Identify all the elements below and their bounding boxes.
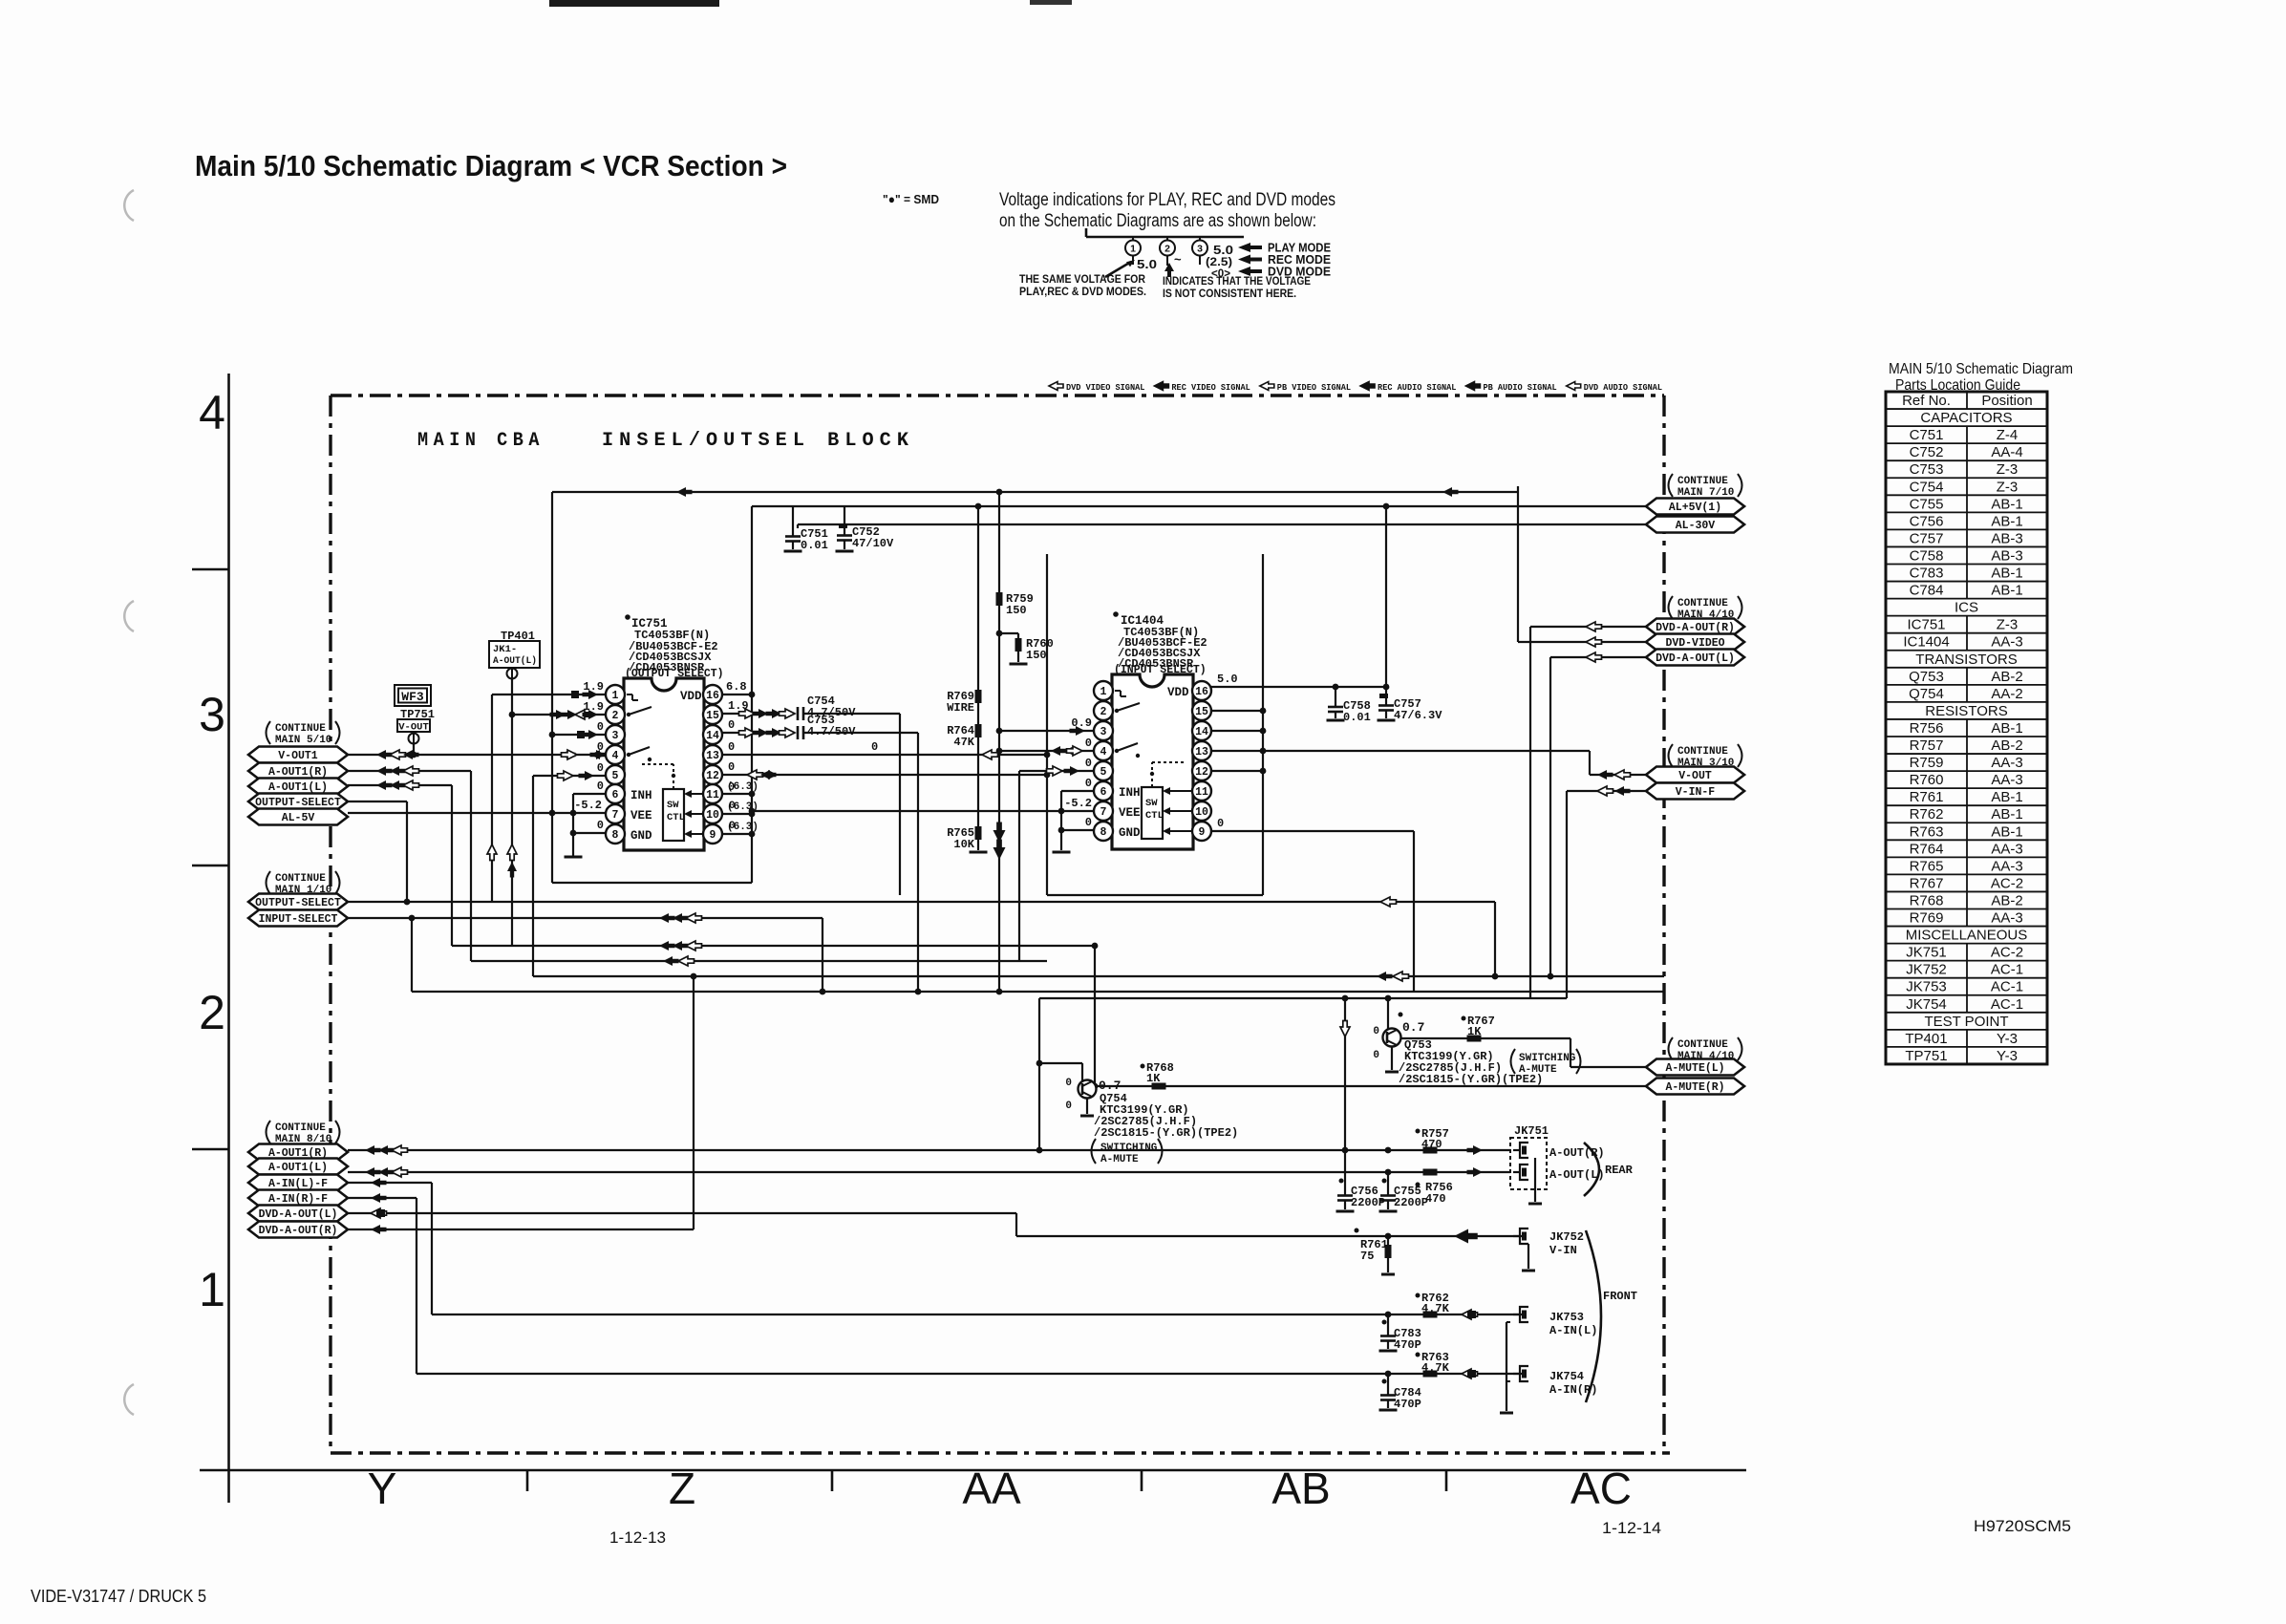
svg-text:A-OUT(L): A-OUT(L) [493, 655, 537, 667]
svg-text:3: 3 [1197, 244, 1203, 255]
svg-text:DVD-VIDEO: DVD-VIDEO [1665, 637, 1724, 650]
svg-text:TRANSISTORS: TRANSISTORS [1915, 652, 2017, 668]
svg-text:1: 1 [1100, 686, 1107, 698]
svg-text:2: 2 [199, 986, 225, 1039]
svg-text:0: 0 [871, 740, 878, 754]
svg-text:0: 0 [1085, 816, 1092, 829]
svg-text:R760: R760 [1910, 772, 1944, 788]
svg-text:0.7: 0.7 [1402, 1020, 1424, 1035]
svg-text:AC-1: AC-1 [1991, 962, 2023, 978]
svg-text:AB-1: AB-1 [1991, 566, 2022, 582]
svg-text:2200P: 2200P [1394, 1196, 1428, 1209]
svg-text:1-12-14: 1-12-14 [1602, 1519, 1661, 1537]
svg-text:470P: 470P [1394, 1338, 1421, 1352]
svg-text:7: 7 [612, 809, 619, 822]
svg-text:C754: C754 [1910, 479, 1944, 495]
svg-text:CAPACITORS: CAPACITORS [1920, 410, 2012, 426]
svg-text:R756: R756 [1910, 720, 1944, 737]
svg-text:MAIN CBA: MAIN CBA [417, 430, 545, 452]
svg-text:CONTINUE: CONTINUE [275, 1122, 326, 1134]
svg-text:15: 15 [706, 710, 719, 722]
svg-text:PB AUDIO SIGNAL: PB AUDIO SIGNAL [1483, 382, 1557, 393]
svg-text:10: 10 [1195, 806, 1208, 819]
svg-text:INDICATES THAT THE VOLTAGE: INDICATES THAT THE VOLTAGE [1163, 274, 1311, 288]
svg-text:(OUTPUT SELECT): (OUTPUT SELECT) [625, 668, 724, 680]
svg-text:GND: GND [1119, 826, 1141, 840]
svg-text:4: 4 [199, 386, 225, 439]
svg-text:JK753: JK753 [1906, 979, 1947, 995]
svg-text:TEST POINT: TEST POINT [1924, 1014, 2008, 1030]
svg-text:0: 0 [728, 718, 735, 732]
svg-text:WIRE: WIRE [947, 701, 974, 715]
svg-text:150: 150 [1026, 649, 1047, 662]
svg-text:11: 11 [1195, 786, 1208, 799]
svg-text:15: 15 [1195, 706, 1208, 718]
svg-text:10K: 10K [953, 838, 974, 851]
svg-text:AA-3: AA-3 [1991, 755, 2022, 771]
svg-text:DVD-A-OUT(L): DVD-A-OUT(L) [259, 1208, 338, 1221]
svg-text:Q754: Q754 [1909, 686, 1944, 702]
svg-text:Y-3: Y-3 [1997, 1048, 2018, 1064]
svg-text:A-IN(L): A-IN(L) [1549, 1324, 1597, 1337]
svg-text:H9720SCM5: H9720SCM5 [1974, 1517, 2071, 1535]
svg-text:VDD: VDD [1167, 686, 1189, 699]
svg-text:8: 8 [1100, 826, 1107, 839]
svg-text:GND: GND [630, 829, 652, 843]
svg-text:C755: C755 [1910, 496, 1944, 512]
svg-text:AB-2: AB-2 [1991, 892, 2022, 908]
svg-text:470: 470 [1421, 1138, 1442, 1151]
svg-text:A-IN(L)-F: A-IN(L)-F [268, 1178, 328, 1190]
svg-text:REAR: REAR [1605, 1164, 1634, 1177]
svg-text:A-OUT1(R): A-OUT1(R) [268, 766, 328, 779]
svg-text:0: 0 [1085, 757, 1092, 770]
svg-text:AC-2: AC-2 [1991, 945, 2023, 961]
svg-text:CONTINUE: CONTINUE [1677, 476, 1728, 487]
svg-text:5.0: 5.0 [1217, 673, 1238, 686]
svg-text:VIDE-V31747 / DRUCK 5: VIDE-V31747 / DRUCK 5 [31, 1587, 206, 1606]
svg-text:"●" = SMD: "●" = SMD [883, 192, 939, 206]
svg-text:VEE: VEE [1119, 806, 1141, 820]
svg-text:0: 0 [597, 780, 604, 793]
svg-text:14: 14 [1195, 726, 1208, 738]
svg-text:A-MUTE: A-MUTE [1519, 1064, 1557, 1076]
svg-text:INPUT-SELECT: INPUT-SELECT [259, 913, 338, 926]
svg-text:13: 13 [706, 750, 719, 762]
svg-text:CONTINUE: CONTINUE [275, 873, 326, 885]
svg-text:AA-3: AA-3 [1991, 772, 2022, 788]
svg-text:REC VIDEO SIGNAL: REC VIDEO SIGNAL [1171, 382, 1250, 393]
svg-text:4.7K: 4.7K [1421, 1302, 1450, 1315]
svg-text:AA-3: AA-3 [1991, 634, 2022, 651]
svg-text:470P: 470P [1394, 1398, 1421, 1411]
svg-text:0: 0 [728, 760, 735, 774]
svg-text:(INPUT SELECT): (INPUT SELECT) [1114, 664, 1207, 676]
svg-text:CTL: CTL [1145, 810, 1164, 822]
svg-text:Z-3: Z-3 [1997, 479, 2019, 495]
svg-text:(6.3): (6.3) [727, 822, 758, 833]
svg-text:JK754: JK754 [1549, 1370, 1584, 1383]
svg-text:AL-30V: AL-30V [1676, 520, 1716, 532]
svg-text:C758: C758 [1910, 547, 1944, 564]
svg-text:AA: AA [962, 1464, 1021, 1513]
svg-text:AB-1: AB-1 [1991, 513, 2022, 529]
svg-text:2: 2 [1164, 244, 1170, 255]
svg-text:/2SC1815-(Y.GR)(TPE2): /2SC1815-(Y.GR)(TPE2) [1094, 1126, 1238, 1140]
svg-text:5.0: 5.0 [1213, 244, 1233, 257]
svg-text:Main 5/10 Schematic Diagram <: Main 5/10 Schematic Diagram < VCR Sectio… [195, 149, 787, 182]
svg-text:5: 5 [1100, 766, 1107, 779]
svg-text:1: 1 [1130, 244, 1136, 255]
svg-text:47/10V: 47/10V [852, 537, 894, 550]
svg-text:1.9: 1.9 [583, 680, 604, 694]
svg-text:C783: C783 [1910, 566, 1944, 582]
svg-text:0: 0 [1373, 1050, 1379, 1061]
svg-text:A-OUT1(L): A-OUT1(L) [268, 781, 328, 794]
svg-text:CTL: CTL [667, 812, 685, 823]
svg-text:0: 0 [597, 761, 604, 775]
svg-text:-5.2: -5.2 [574, 799, 602, 812]
svg-text:3: 3 [1100, 726, 1107, 738]
svg-text:DVD-A-OUT(R): DVD-A-OUT(R) [1656, 622, 1735, 634]
svg-text:C784: C784 [1910, 583, 1944, 599]
svg-text:6: 6 [1100, 786, 1107, 799]
svg-text:1K: 1K [1467, 1025, 1482, 1038]
svg-text:V-IN: V-IN [1549, 1244, 1577, 1257]
svg-text:R757: R757 [1910, 737, 1944, 754]
svg-text:MISCELLANEOUS: MISCELLANEOUS [1906, 928, 2028, 944]
svg-text:DVD VIDEO SIGNAL: DVD VIDEO SIGNAL [1066, 382, 1145, 393]
svg-text:1: 1 [612, 690, 619, 702]
svg-text:C751: C751 [1910, 427, 1944, 443]
svg-text:5.0: 5.0 [1137, 258, 1157, 271]
svg-text:A-OUT1(L): A-OUT1(L) [268, 1162, 328, 1174]
svg-text:-5.2: -5.2 [1064, 797, 1092, 810]
svg-text:47/6.3V: 47/6.3V [1394, 709, 1442, 722]
svg-text:0: 0 [597, 720, 604, 734]
svg-text:0.7: 0.7 [1099, 1079, 1121, 1093]
svg-text:C752: C752 [1910, 444, 1944, 460]
svg-text:13: 13 [1195, 746, 1208, 759]
svg-text:0: 0 [1065, 1078, 1072, 1089]
svg-text:A-MUTE: A-MUTE [1100, 1154, 1139, 1165]
svg-text:4.7K: 4.7K [1421, 1361, 1450, 1375]
svg-text:A-MUTE(R): A-MUTE(R) [1665, 1081, 1724, 1094]
svg-text:AB-1: AB-1 [1991, 583, 2022, 599]
svg-text:~: ~ [1174, 252, 1182, 267]
svg-text:4: 4 [1100, 746, 1107, 759]
svg-text:0.01: 0.01 [801, 539, 828, 552]
svg-text:R769: R769 [1910, 910, 1944, 927]
svg-text:0.9: 0.9 [1071, 716, 1092, 730]
svg-text:Position: Position [1981, 393, 2032, 409]
svg-text:3: 3 [612, 730, 619, 742]
svg-text:R768: R768 [1910, 892, 1944, 908]
svg-text:A-IN(R): A-IN(R) [1549, 1383, 1597, 1397]
svg-text:IC751: IC751 [1907, 617, 1945, 633]
svg-text:AB-3: AB-3 [1991, 530, 2022, 546]
svg-text:Z-4: Z-4 [1997, 427, 2019, 443]
svg-text:9: 9 [1199, 826, 1206, 839]
svg-text:TP401: TP401 [1905, 1031, 1947, 1047]
svg-text:IC1404: IC1404 [1903, 634, 1949, 651]
svg-text:R759: R759 [1910, 755, 1944, 771]
svg-text:JK752: JK752 [1906, 962, 1947, 978]
svg-text:AC-2: AC-2 [1991, 875, 2023, 891]
svg-text:DVD-A-OUT(R): DVD-A-OUT(R) [259, 1225, 338, 1237]
svg-text:0: 0 [1065, 1100, 1072, 1112]
svg-text:Y: Y [368, 1464, 397, 1513]
svg-text:SW: SW [1145, 798, 1158, 809]
svg-text:2: 2 [1100, 706, 1107, 718]
svg-text:AB-3: AB-3 [1991, 547, 2022, 564]
svg-text:0: 0 [1085, 737, 1092, 750]
svg-text:C753: C753 [1910, 461, 1944, 478]
svg-text:AB: AB [1271, 1464, 1330, 1513]
svg-text:1.9: 1.9 [583, 700, 604, 714]
svg-text:JK751: JK751 [1514, 1124, 1549, 1138]
svg-text:AC-1: AC-1 [1991, 979, 2023, 995]
svg-text:SWITCHING: SWITCHING [1519, 1053, 1576, 1064]
svg-text:9: 9 [710, 829, 716, 842]
svg-text:A-MUTE(L): A-MUTE(L) [1665, 1062, 1724, 1075]
svg-text:AB-1: AB-1 [1991, 789, 2022, 805]
svg-text:ICS: ICS [1955, 600, 1978, 616]
svg-text:75: 75 [1360, 1250, 1374, 1263]
svg-text:150: 150 [1006, 604, 1027, 617]
svg-text:AB-1: AB-1 [1991, 496, 2022, 512]
svg-text:4.7/50V: 4.7/50V [807, 725, 856, 738]
svg-text:0: 0 [1217, 817, 1224, 830]
svg-text:AB-1: AB-1 [1991, 806, 2022, 823]
svg-text:0: 0 [597, 740, 604, 754]
svg-text:0: 0 [1085, 777, 1092, 790]
svg-text:JK753: JK753 [1549, 1311, 1584, 1324]
svg-text:DVD-A-OUT(L): DVD-A-OUT(L) [1656, 652, 1735, 665]
svg-text:47K: 47K [953, 736, 974, 749]
svg-text:AL-5V: AL-5V [282, 812, 315, 824]
svg-text:AC-1: AC-1 [1991, 996, 2023, 1013]
svg-text:2: 2 [612, 710, 619, 722]
svg-text:V-OUT: V-OUT [1678, 770, 1712, 782]
svg-text:JK752: JK752 [1549, 1230, 1584, 1244]
svg-text:10: 10 [706, 809, 719, 822]
svg-text:16: 16 [1195, 686, 1208, 698]
svg-text:Y-3: Y-3 [1997, 1031, 2018, 1047]
svg-text:0: 0 [1373, 1026, 1379, 1037]
svg-text:Q753: Q753 [1909, 669, 1944, 685]
svg-text:1-12-13: 1-12-13 [609, 1528, 666, 1547]
svg-text:0: 0 [597, 819, 604, 832]
svg-text:C757: C757 [1910, 530, 1944, 546]
svg-text:VDD: VDD [680, 690, 702, 703]
svg-text:R765: R765 [1910, 858, 1944, 874]
svg-text:12: 12 [1195, 766, 1208, 779]
svg-text:DVD AUDIO SIGNAL: DVD AUDIO SIGNAL [1584, 382, 1663, 393]
svg-text:AB-2: AB-2 [1991, 737, 2022, 754]
svg-text:SWITCHING: SWITCHING [1100, 1143, 1158, 1154]
svg-text:R763: R763 [1910, 823, 1944, 840]
svg-text:JK754: JK754 [1906, 996, 1947, 1013]
svg-text:SW: SW [667, 800, 679, 811]
svg-text:(6.3): (6.3) [727, 781, 758, 793]
svg-text:C756: C756 [1910, 513, 1944, 529]
svg-text:PB VIDEO SIGNAL: PB VIDEO SIGNAL [1277, 382, 1352, 393]
svg-text:AB-1: AB-1 [1991, 823, 2022, 840]
svg-text:A-IN(R)-F: A-IN(R)-F [268, 1193, 328, 1206]
svg-text:CONTINUE: CONTINUE [1677, 1039, 1728, 1051]
svg-text:Voltage indications for PLAY,: Voltage indications for PLAY, REC and DV… [999, 190, 1335, 210]
svg-text:AL+5V(1): AL+5V(1) [1669, 502, 1721, 514]
svg-text:0: 0 [728, 740, 735, 754]
svg-text:TP751: TP751 [1905, 1048, 1947, 1064]
svg-text:11: 11 [706, 789, 719, 801]
svg-text:INH: INH [630, 789, 652, 802]
svg-text:Ref No.: Ref No. [1902, 393, 1951, 409]
svg-text:R764: R764 [1910, 841, 1944, 857]
svg-text:PLAY,REC & DVD MODES.: PLAY,REC & DVD MODES. [1019, 285, 1146, 298]
svg-text:OUTPUT-SELECT: OUTPUT-SELECT [255, 797, 341, 809]
svg-text:2200P: 2200P [1351, 1196, 1385, 1209]
svg-text:Z-3: Z-3 [1997, 461, 2019, 478]
svg-text:3: 3 [199, 688, 225, 741]
svg-text:CONTINUE: CONTINUE [275, 723, 326, 735]
svg-text:8: 8 [612, 829, 619, 842]
svg-text:470: 470 [1425, 1192, 1446, 1206]
svg-text:Z-3: Z-3 [1997, 617, 2019, 633]
svg-text:V-IN-F: V-IN-F [1676, 786, 1716, 799]
svg-text:INH: INH [1119, 786, 1141, 800]
svg-text:16: 16 [706, 690, 719, 702]
svg-text:1.9: 1.9 [728, 699, 749, 713]
svg-text:Z: Z [669, 1464, 695, 1513]
svg-text:VEE: VEE [630, 809, 652, 823]
svg-text:6: 6 [612, 789, 619, 801]
svg-text:4: 4 [612, 750, 619, 762]
svg-text:MAIN 5/10 Schematic Diagram: MAIN 5/10 Schematic Diagram [1889, 361, 2073, 377]
svg-text:5: 5 [612, 770, 619, 782]
svg-text:14: 14 [706, 730, 719, 742]
svg-text:AA-4: AA-4 [1991, 444, 2022, 460]
svg-text:RESISTORS: RESISTORS [1925, 703, 2007, 719]
svg-text:R762: R762 [1910, 806, 1944, 823]
svg-text:R767: R767 [1910, 875, 1944, 891]
svg-text:AA-3: AA-3 [1991, 910, 2022, 927]
svg-text:V-OUT1: V-OUT1 [278, 750, 318, 762]
svg-text:MAIN 5/10: MAIN 5/10 [275, 735, 331, 746]
svg-text:AB-2: AB-2 [1991, 669, 2022, 685]
svg-text:FRONT: FRONT [1603, 1290, 1637, 1303]
svg-text:REC AUDIO SIGNAL: REC AUDIO SIGNAL [1378, 382, 1457, 393]
svg-text:AC: AC [1570, 1464, 1632, 1513]
svg-text:CONTINUE: CONTINUE [1677, 598, 1728, 609]
svg-text:12: 12 [706, 770, 719, 782]
svg-text:WF3: WF3 [401, 690, 424, 704]
svg-text:7: 7 [1100, 806, 1107, 819]
svg-text:AA-2: AA-2 [1991, 686, 2022, 702]
svg-text:JK751: JK751 [1906, 945, 1947, 961]
svg-text:AA-3: AA-3 [1991, 841, 2022, 857]
svg-text:INSEL/OUTSEL BLOCK: INSEL/OUTSEL BLOCK [602, 430, 914, 452]
svg-text:AB-1: AB-1 [1991, 720, 2022, 737]
svg-text:AA-3: AA-3 [1991, 858, 2022, 874]
svg-text:6.8: 6.8 [726, 680, 747, 694]
svg-text:on the Schematic Diagrams are: on the Schematic Diagrams are as shown b… [999, 211, 1316, 231]
svg-text:0.01: 0.01 [1343, 711, 1371, 724]
svg-text:CONTINUE: CONTINUE [1677, 746, 1728, 758]
svg-text:THE SAME VOLTAGE FOR: THE SAME VOLTAGE FOR [1019, 272, 1145, 286]
svg-text:IS NOT CONSISTENT HERE.: IS NOT CONSISTENT HERE. [1163, 287, 1296, 300]
svg-text:(2.5): (2.5) [1206, 257, 1232, 268]
svg-text:V-OUT: V-OUT [398, 722, 429, 734]
svg-text:JK1-: JK1- [493, 644, 517, 655]
svg-text:R761: R761 [1910, 789, 1944, 805]
svg-text:OUTPUT-SELECT: OUTPUT-SELECT [255, 897, 341, 909]
svg-text:1: 1 [199, 1263, 225, 1316]
